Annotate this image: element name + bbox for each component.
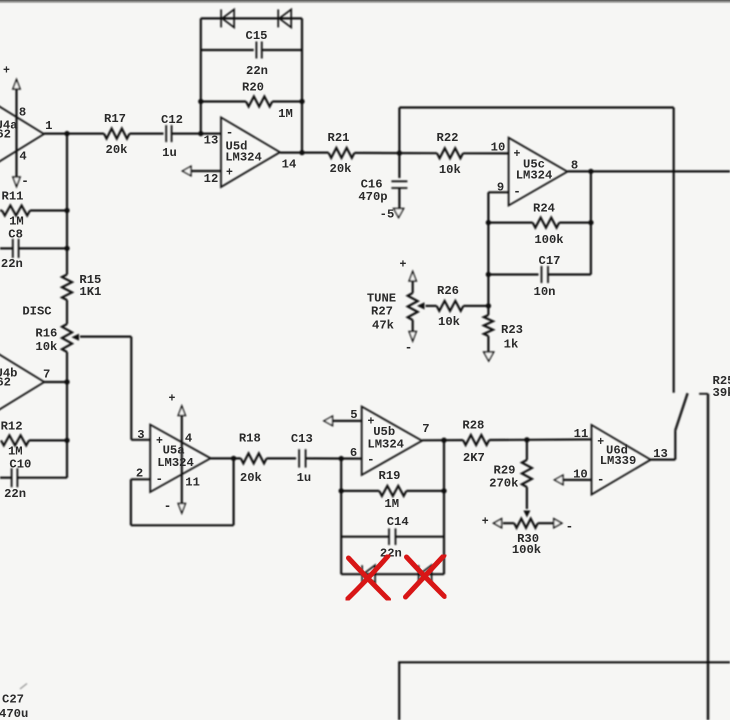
svg-text:100k: 100k (534, 233, 563, 247)
svg-text:1u: 1u (297, 471, 312, 485)
svg-text:-5: -5 (380, 208, 395, 222)
svg-text:5: 5 (350, 408, 357, 422)
svg-text:LM324: LM324 (367, 437, 404, 451)
svg-text:1M: 1M (8, 445, 23, 459)
svg-text:11: 11 (185, 475, 200, 489)
svg-text:1u: 1u (162, 146, 177, 160)
svg-text:R12: R12 (1, 420, 23, 434)
svg-text:270k: 270k (489, 477, 518, 491)
svg-text:R18: R18 (239, 432, 261, 446)
svg-text:+: + (400, 259, 407, 272)
svg-text:6: 6 (350, 446, 357, 460)
svg-text:R20: R20 (242, 81, 264, 95)
svg-text:13: 13 (204, 134, 219, 148)
svg-text:10n: 10n (534, 285, 556, 299)
svg-text:LM324: LM324 (516, 169, 553, 183)
svg-text:9: 9 (497, 180, 504, 194)
svg-text:C12: C12 (161, 113, 183, 127)
svg-text:10: 10 (573, 468, 588, 482)
svg-text:C13: C13 (291, 432, 313, 446)
svg-text:C14: C14 (387, 515, 409, 529)
svg-text:-: - (164, 500, 172, 514)
svg-text:R21: R21 (328, 131, 350, 145)
svg-text:100k: 100k (512, 543, 541, 557)
svg-text:47k: 47k (372, 319, 394, 333)
svg-text:470p: 470p (358, 190, 387, 204)
svg-text:1K1: 1K1 (79, 285, 101, 299)
svg-text:-: - (156, 473, 164, 487)
svg-text:3: 3 (137, 428, 144, 442)
svg-text:20k: 20k (330, 162, 352, 176)
svg-text:-: - (367, 453, 375, 467)
svg-text:22n: 22n (246, 64, 268, 78)
svg-text:1k: 1k (504, 338, 519, 352)
svg-text:22n: 22n (4, 487, 26, 501)
svg-text:8: 8 (571, 158, 578, 172)
svg-text:LM324: LM324 (225, 151, 262, 165)
svg-text:062: 062 (0, 376, 11, 390)
svg-text:R26: R26 (437, 284, 459, 298)
svg-text:C8: C8 (8, 228, 23, 242)
svg-text:470u: 470u (0, 707, 28, 720)
svg-text:1: 1 (45, 119, 52, 133)
svg-text:R23: R23 (501, 323, 523, 337)
svg-text:7: 7 (422, 422, 429, 436)
svg-text:C17: C17 (539, 254, 561, 268)
svg-text:14: 14 (282, 157, 297, 171)
svg-text:1M: 1M (9, 214, 24, 228)
svg-text:R17: R17 (104, 112, 126, 126)
svg-text:7: 7 (43, 368, 50, 382)
svg-text:R27: R27 (371, 305, 393, 319)
svg-text:20k: 20k (240, 471, 262, 485)
svg-text:-: - (226, 126, 234, 140)
svg-text:-: - (405, 341, 413, 355)
svg-text:4: 4 (19, 150, 26, 164)
svg-text:062: 062 (0, 128, 11, 142)
svg-text:DISC: DISC (22, 305, 51, 319)
svg-text:+: + (514, 148, 521, 161)
svg-text:LM324: LM324 (157, 456, 194, 470)
svg-text:8: 8 (19, 106, 26, 120)
svg-text:12: 12 (204, 172, 219, 186)
svg-text:-: - (597, 473, 605, 487)
svg-text:LM339: LM339 (600, 454, 637, 468)
svg-text:10: 10 (491, 141, 506, 155)
svg-text:4: 4 (185, 432, 192, 446)
svg-text:+: + (3, 65, 10, 78)
svg-text:10k: 10k (35, 340, 57, 354)
svg-text:R16: R16 (35, 326, 57, 340)
svg-text:20k: 20k (106, 143, 128, 157)
svg-text:+: + (482, 516, 489, 529)
svg-text:+: + (169, 393, 176, 406)
svg-text:+: + (226, 167, 233, 180)
svg-text:R11: R11 (2, 190, 24, 204)
svg-text:R22: R22 (437, 131, 459, 145)
svg-text:2: 2 (136, 467, 143, 481)
svg-text:-: - (566, 520, 574, 534)
svg-text:C10: C10 (9, 458, 31, 472)
svg-text:1M: 1M (384, 497, 399, 511)
svg-text:-: - (21, 175, 29, 189)
svg-text:R28: R28 (462, 419, 484, 433)
svg-text:TUNE: TUNE (367, 292, 396, 306)
svg-text:13: 13 (653, 447, 668, 461)
svg-text:1M: 1M (278, 107, 293, 121)
svg-text:C15: C15 (246, 29, 268, 43)
svg-text:R29: R29 (494, 464, 516, 478)
svg-text:R19: R19 (379, 469, 401, 483)
svg-text:11: 11 (574, 427, 589, 441)
svg-text:-: - (513, 185, 521, 199)
svg-text:+: + (597, 436, 604, 449)
svg-text:39k: 39k (713, 386, 730, 400)
svg-text:22n: 22n (1, 257, 23, 271)
svg-text:C27: C27 (2, 693, 24, 707)
svg-text:10k: 10k (438, 315, 460, 329)
svg-text:R24: R24 (533, 202, 555, 216)
svg-text:10k: 10k (439, 163, 461, 177)
svg-text:2K7: 2K7 (463, 451, 485, 465)
